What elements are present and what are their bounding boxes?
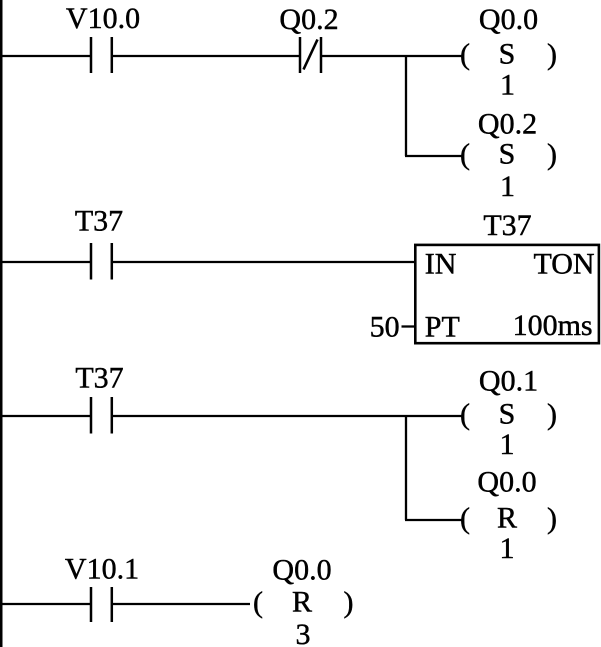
contact V10.1 (normally open) [65, 553, 139, 623]
svg-text:): ) [547, 502, 557, 535]
svg-text:Q0.2: Q0.2 [478, 108, 537, 141]
svg-text:(: ( [253, 586, 263, 619]
svg-text:Q0.1: Q0.1 [479, 365, 538, 398]
svg-text:(: ( [460, 502, 470, 535]
branch vertical wire rung3 [405, 415, 407, 520]
svg-text:T37: T37 [75, 205, 123, 238]
wire rung1 from rail to contact V10.0 [0, 55, 91, 57]
svg-text:1: 1 [500, 69, 515, 102]
svg-text:S: S [499, 38, 516, 71]
svg-text:1: 1 [500, 532, 515, 565]
wire rung4 from rail to contact V10.1 [0, 603, 91, 605]
svg-text:V10.1: V10.1 [65, 553, 139, 586]
svg-text:): ) [547, 38, 557, 71]
svg-text:T37: T37 [483, 209, 531, 242]
coil Q0.0 (R) 1 [460, 466, 557, 566]
svg-text:T37: T37 [75, 362, 123, 395]
svg-text:R: R [497, 502, 517, 535]
svg-text:1: 1 [500, 170, 515, 203]
svg-text:100ms: 100ms [513, 309, 593, 342]
svg-text:R: R [292, 586, 312, 619]
coil Q0.0 (S) 1 [460, 3, 557, 102]
svg-text:1: 1 [500, 428, 515, 461]
branch wire to coil Q0.0 reset [405, 519, 462, 521]
svg-text:3: 3 [296, 618, 311, 647]
svg-text:IN: IN [425, 248, 457, 281]
svg-text:TON: TON [533, 248, 594, 281]
svg-text:Q0.2: Q0.2 [279, 3, 338, 36]
svg-text:Q0.0: Q0.0 [272, 554, 331, 587]
svg-text:(: ( [460, 398, 470, 431]
PT preset value 50 [370, 311, 415, 344]
coil Q0.0 (R) 3 [253, 554, 354, 647]
svg-text:(: ( [460, 38, 470, 71]
wire rung2 from rail to contact T37 [0, 261, 91, 263]
branch wire to coil Q0.2 [405, 155, 462, 157]
svg-text:): ) [547, 398, 557, 431]
wire rung2 from contact T37 to timer box [113, 261, 416, 263]
contact Q0.2 (normally closed) [279, 3, 338, 73]
svg-text:S: S [499, 138, 516, 171]
svg-text:Q0.0: Q0.0 [479, 3, 538, 36]
wire rung3 from rail to contact T37 [0, 415, 91, 417]
wire rung4 from contact V10.1 to coil Q0.0 [113, 603, 250, 605]
wire rung1 from contact Q0.2 to coil Q0.0 [322, 55, 462, 57]
coil Q0.2 (S) 1 [460, 108, 557, 204]
svg-text:Q0.0: Q0.0 [477, 466, 536, 499]
svg-text:S: S [499, 398, 516, 431]
svg-text:): ) [344, 586, 354, 619]
wire rung3 from contact T37 to coil Q0.1 [113, 415, 462, 417]
svg-text:PT: PT [425, 311, 460, 344]
coil Q0.1 (S) 1 [460, 365, 557, 462]
contact V10.0 (normally open) [66, 2, 140, 73]
left power rail [0, 0, 3, 647]
branch vertical wire rung1 [405, 55, 407, 156]
contact T37 rung2 (normally open) [75, 205, 123, 280]
contact T37 rung3 (normally open) [75, 362, 123, 434]
svg-text:): ) [547, 138, 557, 171]
svg-text:50: 50 [370, 311, 400, 344]
timer T37 TON box [415, 209, 599, 344]
wire rung1 from contact V10.0 to contact Q0.2 [113, 55, 300, 57]
svg-text:(: ( [460, 138, 470, 171]
svg-text:V10.0: V10.0 [66, 2, 140, 35]
